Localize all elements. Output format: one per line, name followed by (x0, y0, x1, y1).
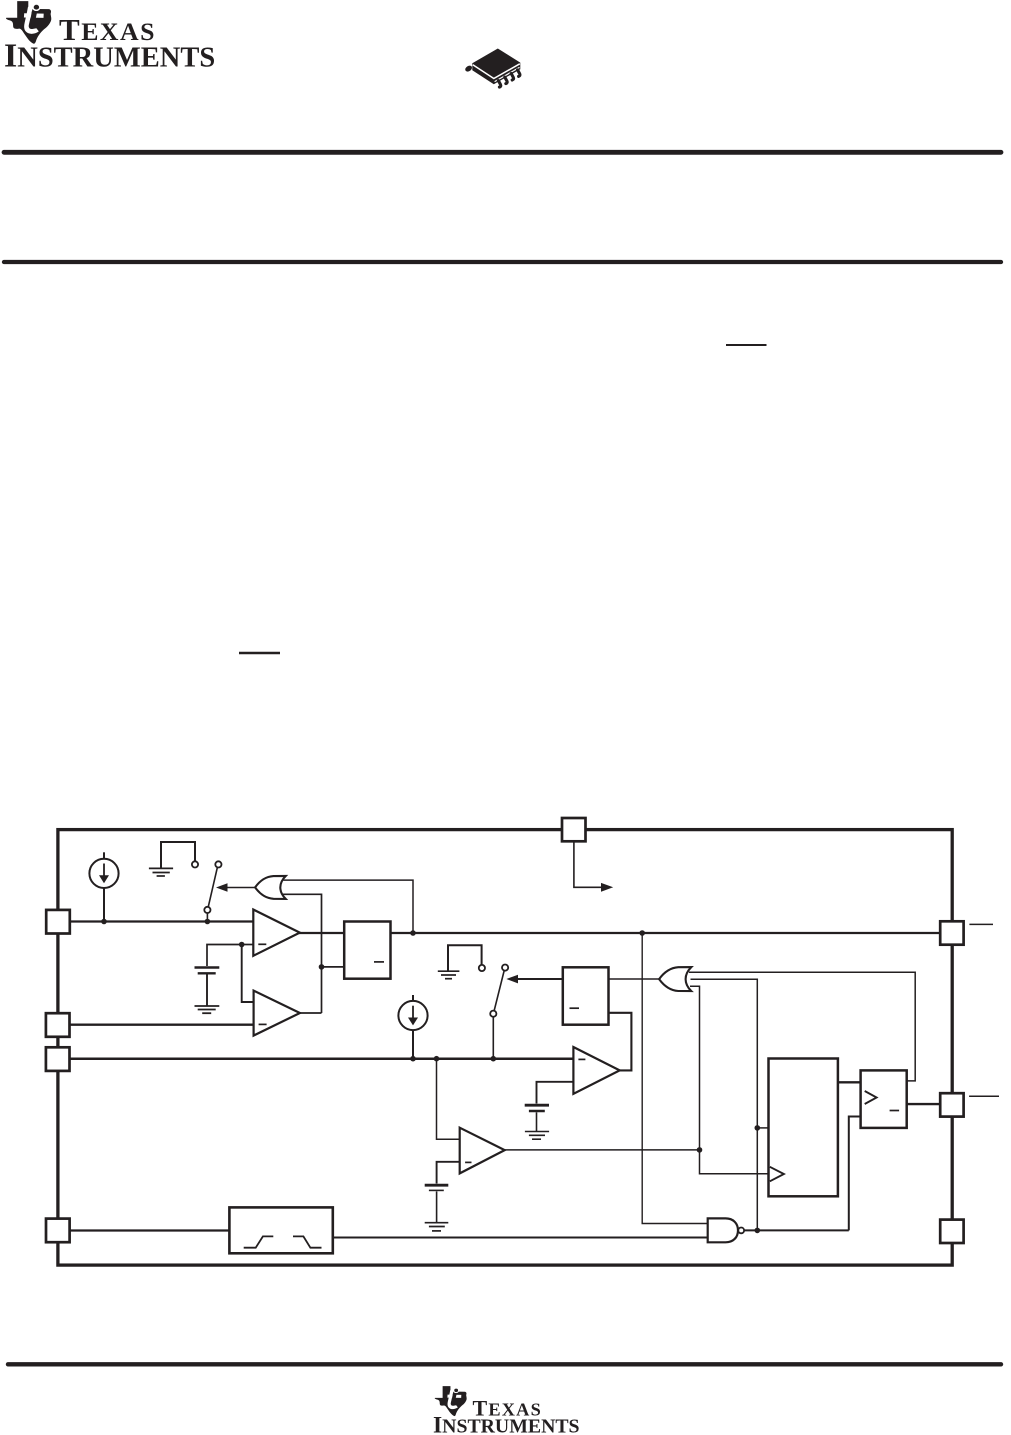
junction: NAND output branch / flip-flop data input (755, 1125, 761, 1131)
wire: NAND upper input branch (x=642.2) (642, 933, 708, 1224)
stub right of OUT1 pin (969, 923, 993, 925)
junction: comparator D output / clock branch (697, 1147, 703, 1153)
wire: one-shot output to output pin (y=933) (391, 932, 941, 934)
junction at I1 / IN wire (101, 919, 107, 925)
svg-text:INSTRUMENTS: INSTRUMENTS (4, 38, 215, 75)
wire: OR-A upper input from output node (284, 880, 414, 933)
pin IN (left 1) (46, 910, 70, 934)
wire: NAND output (744, 1229, 849, 1231)
OR gate B (pointing left, 3 inputs) (659, 967, 691, 991)
wire: driver block output to output pin (907, 1103, 941, 1105)
junction: comparator C branch / threshold bus (434, 1056, 440, 1062)
arrow from latch B to switch S2 (516, 978, 563, 980)
ground with contact (middle) (438, 945, 482, 978)
wire: OR-A lower input from comparator B output node (283, 894, 322, 1013)
wire: node to one-shot lower input (322, 966, 345, 968)
wire: offset node to capacitor (207, 945, 242, 967)
junction: NAND output node (755, 1228, 761, 1234)
current source I1 (89, 852, 118, 921)
ground with contact (upper left) (149, 842, 195, 876)
comparator B (254, 991, 300, 1036)
TI logo header: Texas map bug (6, 1, 51, 44)
minus label comparator C (578, 1058, 585, 1060)
wire: data input into flip-flop (757, 1127, 768, 1129)
minus label comparator D (465, 1161, 471, 1163)
rising edge symbol in delay block (244, 1236, 274, 1247)
svg-text:INSTRUMENTS: INSTRUMENTS (433, 1412, 580, 1435)
pin DT (left 4) (46, 1219, 70, 1243)
OR gate A (pointing left) (255, 876, 286, 899)
wire: comparator D output to clock node (505, 1149, 700, 1151)
contact circle of middle ground (479, 965, 485, 971)
clock chevron of flip-flop (770, 1167, 784, 1182)
rule 2 (4, 260, 1001, 264)
wire: inverting input pin to comparator B (y=1024.7) (70, 1023, 254, 1025)
junction: I2 / threshold bus (410, 1056, 416, 1062)
junction: switch S2 / threshold bus (491, 1056, 497, 1062)
minus label in one-shot A (374, 961, 384, 963)
wire: OR-B upper input from gate driver branch (689, 972, 915, 1081)
wire: comparator D inverting input to reference battery (437, 1162, 460, 1184)
minus label in driver block (890, 1110, 900, 1112)
wire: IN pin to comparator A (y=921.5) (70, 920, 253, 922)
minus label comparator A (258, 943, 266, 945)
wire: OR-B lower input from comparator D output node (690, 986, 769, 1173)
minus label comparator B (259, 1023, 267, 1025)
comparator C (573, 1047, 619, 1094)
offset capacitor (195, 966, 220, 968)
wire: latch B to OR gate B nose (609, 978, 661, 980)
junction at S1 / IN wire (205, 919, 211, 925)
falling edge symbol in delay block (293, 1236, 322, 1247)
wire: NAND output up to driver block lower input (849, 1117, 861, 1231)
wire: delay block to NAND input (y=1237.5) (333, 1237, 708, 1239)
pin GND (right 3) (940, 1220, 963, 1243)
wire: comparator B output (298, 1012, 322, 1014)
deadtime delay block (229, 1207, 332, 1253)
wire: flip-flop output to driver block (838, 1081, 861, 1083)
wire: deadtime pin to delay block (y=1230.5) (70, 1229, 229, 1231)
comparator A (253, 910, 299, 956)
SOIC-8 package icon (464, 49, 520, 88)
overbar fragment right (726, 344, 767, 346)
junction: output wire / OR-A branch / current source I2 (410, 930, 416, 936)
driver block (861, 1070, 907, 1128)
switch S1 (215, 861, 221, 867)
NAND output bubble (738, 1228, 744, 1234)
diagram outer border (58, 830, 952, 1266)
ground under comparator D reference (425, 1222, 449, 1224)
wire: comparator C output up into latch B (609, 1013, 632, 1071)
flip-flop block (769, 1059, 838, 1197)
junction: OR-A lower input / one-shot lower input (319, 964, 325, 970)
top pin (VCC) (562, 818, 586, 841)
comparator D (460, 1128, 505, 1174)
wire: comparator D non-inverting input from threshold bus (437, 1059, 460, 1140)
ground under offset capacitor (195, 1005, 220, 1007)
wire: VCC pin internal arrow (574, 841, 602, 887)
wire: OR-B middle input from NAND output node (691, 979, 758, 1230)
wire: offset node to comparator B non-inverting input (242, 945, 254, 1003)
pin INV (left 2) (46, 1013, 70, 1037)
TI logo footer: Texas map bug (435, 1386, 467, 1416)
reference battery for comparator C (525, 1104, 549, 1107)
junction: offset node (239, 942, 245, 948)
ground under comparator C reference (525, 1131, 549, 1133)
wire: threshold pin bus (y=1058.7) (70, 1057, 573, 1060)
overbar fragment left (239, 652, 280, 654)
NAND gate (708, 1218, 738, 1242)
arrow from OR gate A to switch S1 (226, 887, 256, 889)
current source I2 (398, 995, 427, 1059)
one-shot block A (344, 922, 390, 979)
stub right of OUT2 pin (969, 1095, 999, 1097)
wire: comparator A inverting input to offset cap node (242, 944, 254, 946)
switch S2 (502, 965, 508, 971)
junction: output wire / NAND branch (639, 930, 645, 936)
pin THRESH (left 3) (46, 1047, 70, 1071)
minus label in latch B (570, 1007, 580, 1009)
reference battery for comparator D (425, 1184, 449, 1187)
latch block B (563, 967, 609, 1024)
wire: comparator C ref input (537, 1082, 574, 1104)
wire: comparator A output to one-shot (y=933) (299, 932, 344, 934)
footer rule (8, 1362, 1001, 1366)
rule 1 (4, 150, 1001, 155)
pin OUT2 (right 2) (940, 1093, 963, 1116)
chevron in driver block (865, 1091, 877, 1104)
contact circle of upper-left ground (192, 861, 198, 867)
pin OUT1 (right 1) (940, 921, 963, 944)
